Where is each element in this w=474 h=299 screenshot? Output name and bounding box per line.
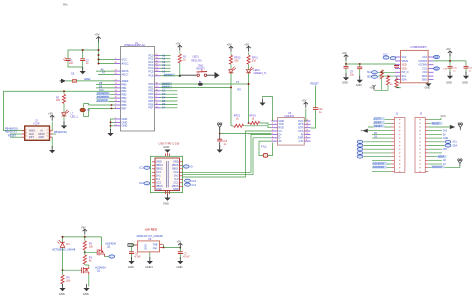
svg-text:PD0: PD0 — [148, 82, 154, 86]
svg-text:GND: GND — [173, 188, 179, 191]
ground under C12 — [463, 72, 469, 79]
svg-text:AREF: AREF — [122, 79, 129, 83]
svg-text:VCONN: VCONN — [418, 60, 427, 63]
transistor Q1 AO3400A — [97, 246, 104, 256]
svg-text:GND: GND — [163, 202, 169, 206]
USB-C center divider — [166, 161, 168, 188]
svg-text:RESET: RESET — [197, 68, 206, 71]
svg-text:D3: D3 — [162, 92, 166, 96]
LED2 column: +5V flag — [246, 46, 250, 52]
resistor R2 — [63, 91, 65, 94]
svg-text:PB5: PB5 — [122, 99, 127, 103]
svg-text:D5: D5 — [162, 99, 166, 103]
USB-C connector body — [155, 158, 180, 191]
inline bead on TX wire — [198, 83, 203, 86]
ground under LED_L — [63, 116, 65, 125]
svg-text:CC2: CC2 — [192, 181, 197, 183]
J1 side ovals — [357, 140, 363, 143]
ovals left of U3 — [383, 56, 389, 59]
U1 right pin names — [148, 53, 154, 109]
svg-text:+5V REG: +5V REG — [145, 228, 158, 232]
ground under J3 — [49, 146, 55, 153]
svg-text:+5V: +5V — [370, 87, 375, 90]
svg-text:BZT52B5V6_C94048: BZT52B5V6_C94048 — [53, 249, 76, 252]
pullup resistor RB — [386, 76, 389, 85]
capacitor C9 — [345, 64, 347, 66]
svg-text:PB7: PB7 — [122, 106, 127, 110]
header J3 ICSP body — [25, 126, 50, 140]
ground under U5 — [149, 252, 151, 260]
wire switch to gnd arrow — [207, 74, 215, 76]
resistor RP11 — [248, 53, 250, 56]
U4 pin numbers — [272, 120, 309, 142]
wire VCONN rail right — [434, 55, 467, 66]
power flag near J2 — [458, 123, 462, 130]
U1 left pin names — [122, 57, 129, 127]
svg-text:PB5(SCK): PB5(SCK) — [5, 131, 17, 134]
svg-text:GREEN_Tx: GREEN_Tx — [254, 72, 268, 75]
svg-text:PB0: PB0 — [122, 82, 127, 86]
earth flag above C14 — [218, 123, 222, 130]
resistor RP16 (TX series) — [250, 121, 260, 124]
svg-text:CC2: CC2 — [422, 71, 427, 74]
capacitor C13 — [313, 108, 318, 110]
resistor R5 — [84, 237, 86, 241]
svg-text:PD3: PD3 — [148, 92, 154, 96]
ovals right of U3 — [434, 55, 440, 58]
RESET highlighted label J2 — [431, 122, 442, 125]
svg-text:4.7uF: 4.7uF — [134, 256, 141, 259]
svg-text:5V: 5V — [443, 134, 446, 136]
svg-text:TX: TX — [236, 81, 240, 84]
svg-text:D11/MOSI: D11/MOSI — [373, 163, 384, 166]
U4 right pin stubs — [304, 121, 310, 141]
pullup resistor RA — [380, 70, 383, 79]
USB-C connector J2 outer shield — [150, 156, 182, 192]
U4 pin names — [279, 120, 285, 143]
svg-text:PB3(MOSI): PB3(MOSI) — [54, 131, 67, 134]
VIN power flag (transistor block) — [83, 229, 87, 235]
U3 left pin stubs — [395, 57, 401, 79]
capacitor C10 — [448, 66, 453, 68]
svg-text:PD5: PD5 — [148, 99, 154, 103]
svg-text:RED_RX: RED_RX — [192, 60, 202, 63]
gnd left arrow flag J1 — [362, 129, 368, 133]
svg-text:GND: GND — [122, 120, 128, 124]
USB-C bottom pins to ground — [166, 191, 170, 195]
svg-text:SCL: SCL — [453, 142, 458, 144]
svg-text:RESET: RESET — [374, 125, 383, 128]
LED1 wire down to RX — [230, 73, 232, 126]
svg-text:GND: GND — [462, 81, 468, 85]
svg-text:SDA: SDA — [402, 78, 407, 81]
wire +5V rail into U3 — [346, 58, 395, 65]
zener diode D3 — [60, 242, 64, 247]
resistor R4 — [62, 270, 64, 274]
svg-text:VCC: VCC — [122, 57, 128, 61]
svg-text:1k0: 1k0 — [56, 99, 61, 102]
crystal Y2 — [263, 154, 267, 158]
svg-text:+5V: +5V — [63, 3, 67, 5]
wire R4 to gnd — [62, 284, 64, 287]
svg-text:VIN: VIN — [81, 226, 85, 230]
RESET wire down through C13 to U4 — [311, 86, 316, 129]
VCC flag J2 — [440, 118, 442, 120]
crystal Y1 — [80, 108, 85, 112]
svg-text:D2: D2 — [162, 89, 166, 93]
LED2 wire down to TX junction — [248, 73, 250, 123]
small cap near U3 left — [394, 66, 399, 68]
svg-text:PB3: PB3 — [122, 93, 127, 97]
svg-text:SCL: SCL — [367, 72, 372, 74]
wire USB D+ to U4 — [183, 134, 272, 172]
header pin dots — [399, 119, 421, 172]
svg-text:AREF: AREF — [438, 156, 445, 159]
svg-text:A5: A5 — [162, 69, 166, 73]
svg-text:+5V: +5V — [446, 47, 451, 51]
J3 pin numbers — [26, 129, 49, 137]
svg-text:LED_L: LED_L — [71, 115, 79, 118]
svg-text:CC2: CC2 — [434, 57, 439, 59]
svg-text:PC5: PC5 — [148, 69, 154, 73]
svg-text:RESET: RESET — [311, 83, 320, 86]
svg-text:ATMEGA328P-AU: ATMEGA328P-AU — [124, 43, 145, 47]
svg-text:PD6: PD6 — [148, 102, 154, 106]
svg-text:VBUS: VBUS — [402, 60, 409, 63]
caps to ground — [68, 61, 83, 70]
node flag oval CC1 left — [144, 166, 150, 169]
D13/SCK wire flag J2 — [459, 165, 461, 168]
svg-text:D12/MISO: D12/MISO — [373, 166, 384, 169]
svg-text:VIN: VIN — [129, 244, 133, 247]
svg-text:PB2: PB2 — [122, 89, 127, 93]
svg-text:CC2: CC2 — [383, 55, 388, 57]
svg-text:CH340N: CH340N — [284, 114, 294, 118]
svg-text:VDD: VDD — [402, 67, 407, 70]
svg-text:GND: GND — [122, 124, 128, 128]
svg-text:AMS1117-5.0_C94048: AMS1117-5.0_C94048 — [137, 234, 164, 238]
svg-text:AREF: AREF — [84, 78, 91, 81]
svg-text:ICSP: ICSP — [34, 122, 40, 126]
svg-text:U5: U5 — [148, 237, 152, 241]
wire +5V to ISP — [51, 122, 53, 131]
wire U1 PC6 to reset node — [161, 75, 180, 77]
ground under C7 — [177, 257, 183, 264]
svg-text:D6: D6 — [162, 102, 166, 106]
node flag oval CC2 left — [144, 182, 150, 185]
svg-text:3V3: 3V3 — [443, 131, 448, 133]
crystal Y1 loop wires — [84, 104, 115, 117]
+5V flag at output — [178, 243, 182, 249]
wire USB D- to U4 — [183, 138, 272, 175]
U1 right pin stubs — [155, 56, 161, 108]
left arrow net flag AREF — [61, 79, 66, 84]
ground under C11 — [357, 76, 363, 83]
wire R5 to Q1 gate — [85, 250, 97, 255]
+5V flag left — [344, 55, 348, 61]
svg-text:+5V: +5V — [227, 42, 232, 46]
svg-text:PD7: PD7 — [148, 106, 154, 110]
resistor RP10 — [230, 53, 232, 56]
capacitor C11 — [359, 64, 361, 67]
svg-text:330: 330 — [252, 60, 257, 63]
svg-text:GND: GND — [446, 81, 452, 85]
USB-C pin names left column — [156, 161, 163, 192]
svg-text:SDA: SDA — [453, 144, 458, 147]
svg-text:PB6: PB6 — [122, 103, 127, 107]
wire C14 node to CH340 — [220, 133, 272, 135]
svg-text:GND: GND — [177, 265, 183, 269]
svg-text:LED1: LED1 — [193, 56, 200, 59]
header J2 body — [415, 117, 425, 172]
ovals SCL SDA — [372, 71, 378, 74]
svg-text:CC2: CC2 — [139, 183, 144, 185]
wire zener node to Q2 gate — [63, 269, 82, 271]
svg-text:GND: GND — [425, 85, 431, 89]
ground under Q2 — [83, 284, 89, 291]
svg-text:CC2: CC2 — [422, 56, 427, 59]
RX long wire — [161, 86, 232, 88]
J1 left pin stubs — [391, 120, 394, 172]
junction dots near PB6/PB7 — [111, 104, 113, 109]
+5V flag right — [448, 51, 452, 57]
svg-text:GND: GND — [342, 80, 348, 84]
J3 pin stubs — [22, 131, 53, 137]
svg-text:VDD: VDD — [402, 64, 407, 67]
J3 left net labels — [5, 127, 18, 137]
LED1 — [230, 65, 232, 70]
svg-text:GND: GND — [422, 78, 428, 81]
J1 left wires — [364, 120, 392, 172]
U4 left pin stubs — [271, 121, 277, 141]
wire USB VBUS to U4 — [183, 131, 272, 177]
svg-text:CC1: CC1 — [422, 67, 427, 70]
svg-text:VCC: VCC — [441, 114, 447, 118]
svg-text:VCONN: VCONN — [418, 64, 427, 67]
J3 left wires — [10, 134, 22, 137]
U5 pin stubs — [135, 244, 163, 247]
wire reset node to switch — [180, 74, 197, 76]
LED2 — [248, 65, 250, 70]
USB-C left pin stubs — [152, 162, 155, 187]
U3 right pin stubs — [428, 57, 433, 79]
resistor R1 — [179, 52, 181, 54]
J2 right pin stubs — [425, 120, 428, 172]
svg-text:CC1: CC1 — [192, 185, 197, 187]
wire long loop from left edge to PB2 — [4, 91, 115, 130]
ground under USB-C — [167, 194, 169, 198]
U3 pin names — [402, 56, 409, 63]
inline component on AREF wire — [73, 80, 77, 83]
net labels A0-A5 right of PC stubs — [162, 53, 166, 73]
svg-text:GND: GND — [443, 138, 448, 140]
svg-text:D7: D7 — [162, 106, 166, 110]
output wire to +5V — [163, 244, 181, 251]
wire down through C14 — [219, 128, 221, 149]
ground above USB-C — [164, 150, 170, 153]
TX long wire — [161, 83, 249, 85]
+5V flag for U4 — [304, 102, 308, 108]
transistor Q2 AO3400A — [82, 267, 89, 275]
svg-text:D1/TX: D1/TX — [374, 118, 381, 121]
wire R2 to LED — [63, 104, 65, 113]
resistor R3 — [84, 254, 86, 257]
J1 highlighted labels top — [374, 117, 385, 120]
power flag +5V (top-left faint) — [63, 3, 68, 5]
svg-text:CC1: CC1 — [139, 168, 144, 170]
J1 highlighted labels bottom — [373, 162, 388, 165]
ground under R4 — [59, 284, 65, 291]
wire R3 to Q2 drain — [85, 264, 89, 267]
capacitor C2 — [80, 59, 85, 61]
svg-text:GND: GND — [145, 244, 148, 250]
PB0-PB5 wires — [96, 85, 115, 102]
ground for U4 — [259, 99, 265, 106]
node flag ovals right CC — [185, 179, 191, 182]
svg-text:FUSB302MPX: FUSB302MPX — [411, 46, 428, 49]
svg-text:D13/SCK: D13/SCK — [432, 166, 442, 169]
header J1 body — [394, 117, 405, 172]
top rail wire — [63, 236, 102, 271]
ground under U1 GND pins — [107, 129, 113, 136]
ground under U3 — [427, 82, 430, 84]
wire Q2 source to gnd — [88, 275, 90, 287]
svg-text:10u: 10u — [350, 73, 355, 76]
svg-text:+5V: +5V — [177, 240, 182, 244]
VIN input flag — [128, 244, 134, 247]
svg-text:D4: D4 — [162, 95, 166, 99]
svg-text:RST: RST — [29, 136, 34, 139]
crystal loop under U4 — [259, 141, 273, 155]
svg-text:PB4: PB4 — [122, 96, 127, 100]
AREF wire — [66, 80, 115, 82]
capacitor C12 — [464, 66, 469, 68]
capacitor C6 — [129, 252, 134, 254]
svg-text:Out: Out — [153, 247, 157, 250]
GND loop above U4 — [263, 96, 273, 121]
svg-text:INT_N: INT_N — [402, 71, 409, 74]
svg-text:PD4: PD4 — [148, 96, 154, 100]
ground under C1/C2 — [80, 67, 86, 74]
svg-text:AVCC: AVCC — [122, 61, 129, 65]
ground under C6 — [128, 257, 134, 264]
svg-text:+5V: +5V — [244, 42, 249, 46]
svg-text:+5V: +5V — [302, 98, 307, 102]
capacitor C1 — [66, 59, 71, 61]
svg-text:+5V: +5V — [48, 111, 53, 115]
MCU U1 ATMEGA328P-AU body — [121, 47, 155, 132]
svg-text:PD2: PD2 — [148, 89, 154, 93]
svg-text:RX: RX — [238, 89, 242, 92]
net label RESET (highlighted) on PC6 wire — [164, 74, 176, 77]
svg-text:GND: GND — [59, 292, 65, 296]
net labels D0-D7 right of PD stubs — [162, 82, 173, 85]
+5V flag near ISP — [50, 115, 54, 121]
right gnd arrow flag — [215, 72, 220, 79]
wire R1 to reset node — [179, 63, 181, 76]
svg-text:4TL2: 4TL2 — [261, 145, 267, 148]
svg-text:CC1: CC1 — [434, 68, 439, 70]
wire +5V to U4 VCC — [304, 109, 306, 122]
svg-text:D0/RX: D0/RX — [374, 121, 381, 124]
GND pins wire to ground — [111, 119, 115, 131]
svg-text:SDA: SDA — [367, 76, 372, 79]
svg-text:GND: GND — [163, 145, 169, 149]
USB-C right pin stubs — [180, 162, 183, 187]
svg-text:GND: GND — [156, 188, 162, 191]
capacitor C7 — [178, 252, 183, 254]
resistor RP12 (RX series) — [231, 125, 234, 127]
ADC6/ADC7 wires with labels — [96, 71, 115, 74]
svg-text:GND: GND — [128, 265, 134, 269]
svg-text:PB1: PB1 — [122, 86, 127, 90]
J3 GND wire down — [51, 137, 53, 148]
ground under C10 — [447, 72, 453, 79]
U1 right pin numbers — [156, 54, 159, 108]
wires PC0-PC5 / PD2-PD7 — [161, 56, 178, 108]
svg-text:+5V: +5V — [95, 33, 100, 37]
svg-text:GND1: GND1 — [145, 265, 153, 269]
junction dots — [82, 49, 100, 65]
J3 inner pin names — [29, 130, 45, 140]
node flag oval right top — [183, 165, 189, 168]
U1 left pin stubs — [115, 59, 121, 125]
junction on loop wire — [63, 90, 65, 92]
pullup resistor RC — [395, 78, 398, 87]
Q1 source to net flag — [105, 256, 109, 258]
svg-text:RESET: RESET — [8, 134, 17, 137]
wire +5V down to VCC/AVCC — [68, 42, 115, 64]
gnd right arrow flag J2 — [450, 125, 456, 129]
LED L7 LED_L — [62, 110, 69, 116]
svg-text:VIN: VIN — [443, 149, 447, 151]
IC U4 CH340N body — [278, 118, 305, 146]
IC U3 FUSB302MPX body — [401, 50, 429, 82]
svg-text:1uF: 1uF — [69, 62, 74, 65]
J3 right wire + label PB3(MOSI) — [53, 133, 57, 135]
+5V flag for reset pullup — [178, 45, 182, 51]
svg-text:GND: GND — [356, 83, 362, 87]
U1 left pin numbers — [115, 58, 118, 126]
svg-text:4.7uF: 4.7uF — [183, 256, 190, 259]
svg-text:GND: GND — [83, 292, 89, 296]
J2 right wires — [428, 120, 460, 168]
USB-C pin names right column — [172, 161, 179, 192]
svg-text:CTL: CTL — [299, 140, 304, 143]
D13/SCK highlighted label — [432, 165, 445, 168]
ground under C9 — [343, 73, 349, 80]
LED1 column: +5V flag — [229, 46, 233, 52]
svg-text:ADC7: ADC7 — [122, 72, 129, 76]
AREF highlighted label J2 — [437, 155, 446, 158]
J2 SCL/SDA ovals — [445, 140, 451, 143]
svg-text:PD1: PD1 — [148, 85, 154, 89]
svg-text:RESET: RESET — [432, 122, 441, 125]
regulator U5 body — [138, 241, 160, 252]
svg-text:GND: GND — [122, 117, 128, 121]
ground under C14 — [217, 146, 223, 153]
svg-text:+5V: +5V — [342, 51, 347, 55]
svg-text:330: 330 — [234, 60, 239, 63]
capacitor C14 — [217, 139, 222, 141]
svg-text:CC2: CC2 — [402, 56, 407, 59]
svg-text:+5V: +5V — [176, 41, 181, 45]
svg-text:D13/SCK: D13/SCK — [97, 99, 108, 102]
svg-text:RESET: RESET — [164, 73, 173, 77]
svg-text:PC6: PC6 — [148, 74, 154, 78]
wire VIN to U5 and C6 — [132, 245, 135, 252]
svg-text:Q2: Q2 — [97, 270, 101, 273]
